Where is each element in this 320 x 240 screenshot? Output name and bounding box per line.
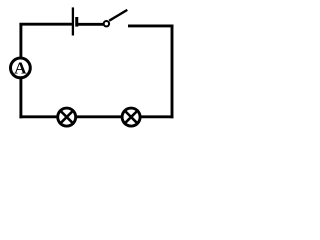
- wire left side (top-left corner down to bottom-left corner): [19, 23, 22, 118]
- lamp L1 circle: [58, 108, 76, 126]
- switch lever (open): [109, 10, 127, 21]
- battery short plate (negative): [75, 17, 78, 27]
- wire battery to switch: [77, 23, 105, 26]
- svg-text:A: A: [14, 58, 27, 77]
- wire top-right (switch to top-right corner): [128, 24, 173, 27]
- ammeter A circle: [11, 58, 31, 78]
- wire top-left (battery to top-left corner): [19, 23, 71, 26]
- switch pivot circle: [104, 21, 109, 26]
- wire bottom (bottom-left corner to bottom-right corner): [19, 115, 173, 118]
- lamp L1 cross: [60, 111, 73, 124]
- wire right side (bottom-right corner up to top-right corner): [171, 24, 174, 118]
- battery long plate (positive): [72, 7, 74, 35]
- lamp L2 circle: [122, 108, 140, 126]
- lamp L2 cross: [125, 111, 138, 124]
